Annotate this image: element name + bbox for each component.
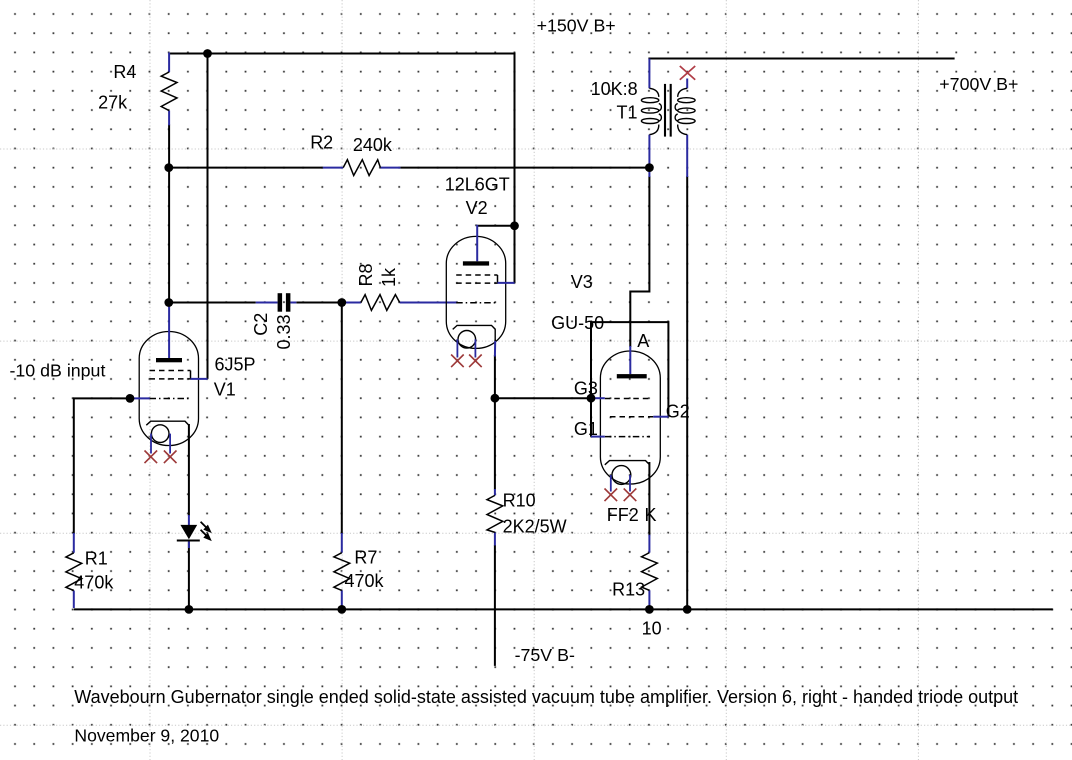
svg-text:R1: R1 — [85, 548, 108, 568]
resistor R2 — [323, 160, 401, 176]
vacuum tube V1 6J5P envelope — [139, 332, 198, 446]
V2 heater pins — [457, 339, 475, 357]
T1 primary winding — [641, 88, 661, 134]
svg-text:R13: R13 — [612, 580, 645, 600]
T1 primary lead top — [648, 59, 650, 89]
svg-text:-10 dB input: -10 dB input — [10, 360, 106, 380]
wire R7 column — [341, 303, 343, 535]
T1 core — [665, 84, 671, 137]
svg-text:470k: 470k — [74, 572, 114, 592]
LED diode — [177, 515, 212, 548]
V2 screen grid tie bracket — [497, 275, 499, 283]
capacitor C2 — [256, 293, 296, 312]
svg-text:470k: 470k — [345, 571, 385, 591]
V3 plate bar — [617, 374, 647, 378]
wire V2 cathode node to V3 G3 — [495, 397, 591, 399]
wire LED to ground rail — [188, 542, 190, 610]
junction node R4/R2 — [164, 163, 173, 172]
V3 cathode structure — [605, 461, 650, 485]
svg-text:12L6GT: 12L6GT — [445, 175, 510, 195]
resistor R7 — [334, 533, 350, 609]
wire ground rail — [74, 608, 1053, 610]
wire T1 primary to V3 anode jog — [630, 176, 649, 347]
svg-text:G1: G1 — [574, 419, 598, 439]
V2 screen grid lead to plate node — [498, 282, 515, 284]
V1 grid dashes — [150, 371, 191, 399]
svg-text:10: 10 — [642, 619, 662, 639]
V1 plate lead — [168, 302, 170, 359]
wire V1 cathode to LED — [188, 424, 190, 516]
vacuum tube V2 12L6GT envelope — [446, 236, 505, 348]
svg-text:K: K — [645, 505, 657, 525]
junction node V3 G3 — [587, 394, 596, 403]
resistor R10 — [487, 489, 503, 546]
svg-text:1k: 1k — [379, 267, 399, 287]
svg-text:27k: 27k — [98, 93, 128, 113]
junction node T1 secondary/ground rail — [683, 605, 692, 614]
T1 secondary winding — [675, 88, 695, 134]
svg-text:G3: G3 — [574, 378, 598, 398]
svg-text:R2: R2 — [310, 133, 333, 153]
wire R10 node to -75V B- — [494, 398, 496, 666]
V2 plate bar — [463, 261, 489, 265]
junction node V1 plate/C2 — [164, 298, 173, 307]
wire R2 row — [168, 167, 650, 169]
wire V3 grid tie G3-G1 — [590, 322, 592, 437]
svg-text:V3: V3 — [571, 272, 593, 292]
wire from node at top down to V1 screen grid — [207, 53, 209, 379]
V3 G1 lead — [591, 436, 605, 438]
wire V2 cathode down to R10 node — [494, 355, 496, 398]
V3 heater pins — [611, 475, 630, 492]
wire V3 grid tie to G2 — [591, 322, 668, 417]
junction node at top rail — [203, 49, 212, 58]
svg-text:-75V B-: -75V B- — [515, 645, 575, 665]
junction node LED/ground rail — [185, 605, 194, 614]
junction node V2 plate — [510, 221, 519, 230]
V1 plate bar — [156, 358, 182, 362]
wire V3 cathode to R13 — [648, 462, 650, 536]
svg-text:+700V B+: +700V B+ — [939, 74, 1018, 94]
svg-text:V1: V1 — [214, 380, 236, 400]
V2 grid dashes — [456, 275, 497, 303]
wire C2 row — [168, 302, 343, 304]
svg-text:T1: T1 — [617, 103, 638, 123]
V3 grid dashes — [605, 399, 654, 437]
junction node input/V1 grid — [126, 394, 135, 403]
svg-text:R8: R8 — [356, 263, 376, 286]
V2 plate lead — [476, 225, 478, 261]
svg-text:R7: R7 — [354, 548, 377, 568]
V3 no-connect X marks — [605, 489, 637, 502]
resistor R4 — [161, 53, 177, 126]
V2 cathode lead — [494, 341, 496, 357]
svg-text:0.33: 0.33 — [274, 314, 294, 349]
svg-text:G2: G2 — [666, 402, 690, 422]
V3 anode lead — [629, 346, 631, 374]
junction node R7/ground rail — [337, 605, 346, 614]
V1 heater pins — [151, 434, 170, 454]
resistor R1 — [66, 533, 82, 608]
wire R4 to R2 node to V1 plate — [168, 125, 170, 304]
svg-text:6J5P: 6J5P — [215, 355, 256, 375]
resistor R8 — [343, 295, 457, 311]
svg-text:R10: R10 — [503, 491, 536, 511]
junction node R13/ground rail — [645, 605, 654, 614]
svg-text:GU-50: GU-50 — [551, 313, 604, 333]
svg-text:10K:8: 10K:8 — [591, 79, 638, 99]
T1 secondary lead bottom — [686, 135, 688, 177]
junction node V2 cathode/R10 — [491, 394, 500, 403]
svg-text:C2: C2 — [251, 313, 271, 336]
svg-text:240k: 240k — [353, 135, 393, 155]
svg-text:R4: R4 — [113, 62, 136, 82]
svg-text:V2: V2 — [466, 198, 488, 218]
V1 screen grid lead to node — [191, 378, 208, 380]
junction node R2/T1 primary — [645, 163, 654, 172]
junction node C2/R8/R7 — [337, 298, 346, 307]
svg-text:November 9, 2010: November 9, 2010 — [74, 725, 219, 745]
resistor R13 — [642, 535, 658, 610]
T1 secondary lead top — [686, 79, 688, 89]
svg-text:A: A — [637, 331, 649, 351]
V2 cathode structure — [453, 325, 496, 348]
V1 cathode structure — [146, 421, 189, 442]
svg-text:+150V B+: +150V B+ — [537, 16, 616, 36]
svg-text:Wavebourn Gubernator single en: Wavebourn Gubernator single ended solid-… — [74, 687, 1018, 707]
wire T1 to +700V B+ — [649, 59, 954, 60]
V1 screen grid tie bracket — [190, 371, 192, 379]
wire V2 plate branch from top rail — [477, 53, 514, 283]
wire +150V B+ top rail — [169, 53, 516, 55]
T1 primary lead bottom — [648, 135, 650, 177]
V1 control grid lead from input — [130, 397, 150, 399]
svg-text:2K2/5W: 2K2/5W — [503, 517, 567, 537]
V1 no-connect X marks — [145, 451, 177, 464]
svg-text:FF2: FF2 — [607, 505, 639, 525]
V3 G3 lead — [591, 397, 605, 399]
V3 G2 lead — [653, 416, 668, 418]
T1 no-connect X mark — [680, 66, 695, 80]
V2 no-connect X marks — [451, 355, 482, 368]
transformer T1 — [641, 59, 695, 178]
wire input to V1 grid — [74, 398, 130, 534]
wire T1 secondary bottom to ground rail — [686, 176, 688, 609]
vacuum tube V3 GU-50 envelope — [600, 351, 660, 484]
